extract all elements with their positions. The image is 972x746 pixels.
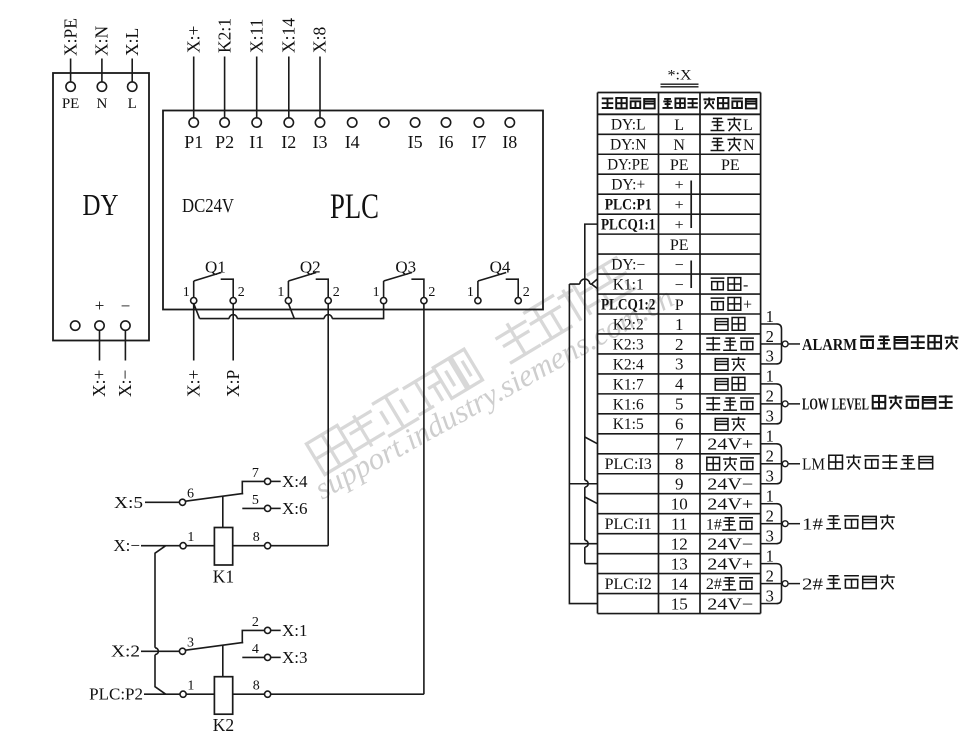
svg-text:LM: LM: [802, 455, 825, 474]
external common: [706, 337, 754, 351]
wire K1 pin8 to Q2-2: [271, 545, 329, 547]
svg-text:1: 1: [766, 546, 774, 565]
svg-text:K2:4: K2:4: [613, 356, 644, 373]
svg-text:PLC:I3: PLC:I3: [605, 456, 652, 473]
external 1# cycle: [722, 518, 753, 530]
jumper bar - terminals: [690, 261, 692, 289]
title underline 1: [661, 83, 699, 85]
K1 coil terminal 1: [180, 543, 186, 549]
svg-text:24V+: 24V+: [707, 554, 753, 573]
relay coil K2: [214, 677, 232, 715]
K1 contact terminal 5: [265, 505, 271, 511]
V1 entry to row 7/24V+: [585, 437, 598, 444]
svg-text:3: 3: [187, 636, 194, 651]
external contact type: [715, 377, 745, 390]
svg-text:X:+: X:+: [183, 370, 203, 398]
svg-text:DY:−: DY:−: [611, 256, 645, 273]
svg-text:3: 3: [766, 407, 774, 426]
dash to X:1: [271, 629, 281, 631]
svg-text:2: 2: [523, 285, 530, 300]
wire to PLC terminal P2: [224, 57, 226, 118]
svg-text:4: 4: [675, 375, 684, 394]
svg-text:7: 7: [675, 435, 684, 454]
svg-text:X:14: X:14: [279, 18, 299, 53]
svg-text:1: 1: [187, 679, 194, 694]
svg-text:X:+: X:+: [89, 370, 109, 398]
wire to PLC terminal P1: [193, 57, 195, 118]
wire Q1-1 to X:+: [193, 304, 195, 361]
svg-text:K2: K2: [213, 715, 234, 735]
PLC terminal I1: [252, 118, 261, 127]
svg-text:X:+: X:+: [183, 26, 203, 54]
DY terminal -: [121, 321, 130, 330]
wire to PLC terminal I2: [288, 57, 290, 118]
svg-text:2#: 2#: [706, 576, 722, 593]
svg-text:1#: 1#: [706, 516, 722, 533]
svg-text:3: 3: [766, 467, 774, 486]
PLC terminal I7: [474, 118, 483, 127]
svg-text:3: 3: [766, 586, 774, 605]
svg-text:+: +: [743, 297, 752, 314]
wire bus V2 from K1:1(-): [569, 284, 597, 604]
K1 contact terminal 7: [265, 478, 271, 484]
svg-text:DY:L: DY:L: [611, 117, 646, 134]
PLC terminal spare: [380, 118, 389, 127]
svg-text:K1:1: K1:1: [613, 276, 644, 293]
switch Q1: [183, 258, 245, 304]
svg-text:12: 12: [671, 534, 688, 553]
svg-text:N: N: [673, 137, 685, 154]
svg-text:2: 2: [766, 387, 774, 406]
bus wire under PLC to Q3-1: [200, 304, 384, 319]
svg-text:I2: I2: [281, 132, 296, 152]
bus hop over X:P wire: [229, 315, 237, 319]
PLC terminal I2: [284, 118, 293, 127]
PLC terminal I4: [348, 118, 357, 127]
dash to X:3: [271, 656, 281, 658]
external contact type: [715, 417, 745, 431]
svg-text:−: −: [675, 257, 684, 274]
V2 entry to row 9/24V-: [569, 483, 597, 485]
svg-text:P1: P1: [184, 132, 203, 152]
svg-text:X:3: X:3: [282, 648, 308, 667]
svg-text:1: 1: [187, 530, 194, 545]
svg-text:PE: PE: [670, 237, 689, 254]
wire pin1 to coil: [186, 693, 214, 695]
wire Q2-2 down to K1 pin 8: [327, 304, 329, 546]
PLC terminal I5: [410, 118, 419, 127]
svg-text:1: 1: [277, 285, 284, 300]
V1 entry to row 10/24V+: [585, 497, 598, 504]
PLC terminal P1: [189, 118, 198, 127]
group LM low-oil-level sensor: [761, 427, 933, 486]
wire to DY terminal PE: [70, 59, 72, 83]
K1 contact 5 lead: [242, 507, 264, 509]
svg-text:X:N: X:N: [92, 26, 112, 57]
wire coil to pin 8: [233, 545, 265, 547]
svg-text:2: 2: [252, 615, 259, 630]
svg-text:L: L: [743, 117, 753, 134]
svg-text:PLC:I1: PLC:I1: [605, 516, 652, 533]
wire blade to K2 coil: [222, 645, 224, 677]
dash to X:4: [271, 480, 281, 482]
svg-text:L: L: [128, 96, 137, 112]
svg-text:N: N: [96, 96, 107, 112]
svg-text:24V−: 24V−: [707, 594, 753, 613]
V2 entry to row 12/24V-: [569, 543, 597, 545]
wire pin1 to coil: [186, 545, 214, 547]
svg-text:K1:5: K1:5: [613, 416, 644, 433]
svg-text:DY: DY: [83, 187, 119, 222]
K2 changeover blade: [186, 642, 244, 650]
external contact type: [715, 357, 745, 371]
svg-text:PLC:P2: PLC:P2: [89, 685, 143, 704]
svg-text:9: 9: [675, 475, 684, 494]
svg-text:DY:+: DY:+: [611, 177, 645, 194]
svg-text:6: 6: [187, 487, 194, 502]
wire PLC:P2 to K2 pin 1: [144, 693, 180, 695]
external 2# cycle: [722, 578, 753, 590]
svg-text:X:6: X:6: [282, 499, 308, 518]
svg-text:5: 5: [675, 395, 684, 414]
svg-text:−: −: [121, 297, 131, 316]
wire Q1-2 to X:P: [232, 304, 234, 361]
V2 hop over V1: [580, 279, 590, 284]
svg-text:K2:1: K2:1: [214, 18, 234, 53]
svg-text:6: 6: [675, 415, 684, 434]
external motor+: [711, 298, 741, 311]
svg-text:I1: I1: [249, 132, 264, 152]
svg-text:24V−: 24V−: [707, 534, 753, 553]
wire Q3-2 down to K2 pin 8: [423, 304, 425, 695]
external jinxian L: [711, 117, 742, 131]
K1 changeover blade: [186, 493, 244, 501]
K1 contact 7 lead: [242, 481, 264, 494]
svg-text:X:4: X:4: [282, 472, 308, 491]
svg-text:K1:6: K1:6: [613, 396, 644, 413]
wire Q2-1 to bus (diagonal): [288, 304, 294, 319]
svg-text:X:P: X:P: [223, 370, 243, 398]
wire K2 pin8 to Q3-2: [271, 693, 424, 695]
svg-text:+: +: [95, 296, 105, 315]
svg-text:I4: I4: [345, 132, 360, 152]
svg-text:PE: PE: [62, 96, 80, 112]
svg-text:PE: PE: [721, 157, 740, 174]
svg-text:1: 1: [373, 285, 380, 300]
V2 fork into K1:1 row: [592, 279, 598, 289]
svg-text:X:1: X:1: [282, 621, 308, 640]
svg-text:2: 2: [766, 566, 774, 585]
svg-text:X:8: X:8: [310, 27, 330, 54]
wire to PLC terminal I3: [319, 57, 321, 118]
svg-text:X:−: X:−: [115, 370, 135, 398]
wire to PLC terminal I1: [256, 57, 258, 118]
svg-text:P2: P2: [215, 132, 234, 152]
svg-text:PLC:P1: PLC:P1: [605, 197, 652, 214]
power supply DY box: [53, 73, 149, 341]
wire X:- branch down to PLC:P2: [155, 546, 166, 695]
svg-text:PE: PE: [670, 157, 689, 174]
svg-text:K2:2: K2:2: [613, 316, 644, 333]
K2 contact 2 lead: [242, 630, 264, 643]
wire DY- down: [124, 330, 126, 360]
svg-text:+: +: [675, 197, 684, 214]
svg-text:K1: K1: [213, 567, 234, 587]
svg-text:2: 2: [766, 506, 774, 525]
svg-text:1: 1: [766, 427, 774, 446]
svg-text:1: 1: [183, 285, 190, 300]
svg-text:8: 8: [675, 455, 684, 474]
wire Q1-1 to bus (diagonal): [194, 304, 200, 319]
svg-text:X:11: X:11: [246, 19, 266, 53]
DY terminal PE: [66, 82, 75, 91]
external contact type: [715, 318, 745, 331]
svg-text:2: 2: [238, 285, 245, 300]
svg-text:3: 3: [766, 347, 774, 366]
switch Q3: [373, 258, 436, 304]
PLC terminal I8: [505, 118, 514, 127]
V1 entry to row 13/24V+ (end): [585, 563, 598, 565]
svg-text:1: 1: [766, 487, 774, 506]
wire blade to K1 coil: [222, 496, 224, 528]
svg-text:PLCQ1:2: PLCQ1:2: [601, 296, 656, 313]
svg-text:DY:PE: DY:PE: [607, 157, 649, 174]
svg-text:3: 3: [675, 355, 684, 374]
K2 coil terminal 1: [180, 691, 186, 697]
header internal device: [602, 97, 655, 108]
svg-text:L: L: [674, 117, 684, 134]
PLC terminal I3: [315, 118, 324, 127]
svg-text:X:−: X:−: [113, 536, 140, 555]
K2 contact terminal 3: [179, 648, 185, 654]
wire X:- to K1 pin 1: [141, 545, 180, 547]
svg-text:I5: I5: [408, 132, 423, 152]
svg-text:2: 2: [428, 285, 435, 300]
DY bottom spare terminal: [71, 321, 80, 330]
external motor-: [711, 278, 741, 291]
title underline 2: [661, 86, 699, 88]
wire bus V1 from PLCQ1:1(+): [585, 224, 598, 563]
svg-text:−: −: [675, 277, 684, 294]
relay coil K1: [214, 528, 232, 566]
svg-text:8: 8: [253, 679, 260, 694]
svg-text:24V−: 24V−: [707, 475, 753, 494]
header terminal no: [662, 98, 697, 108]
svg-text:K2:3: K2:3: [613, 336, 644, 353]
svg-text:2: 2: [675, 335, 684, 354]
external low oil level: [707, 457, 754, 471]
switch Q2: [277, 258, 339, 304]
svg-text:1#: 1#: [802, 514, 824, 533]
group 2# circulation switch: [761, 546, 895, 605]
svg-text:+: +: [675, 217, 684, 234]
svg-text:3: 3: [766, 526, 774, 545]
svg-text:DC24V: DC24V: [182, 196, 234, 217]
PLC terminal P2: [220, 118, 229, 127]
svg-text:2: 2: [333, 285, 340, 300]
wire to DY terminal L: [131, 59, 133, 83]
wire to DY terminal N: [101, 59, 103, 83]
wire coil to pin 8: [233, 693, 265, 695]
bus hop over Q2-2 wire: [324, 315, 332, 319]
K1 coil terminal 8: [265, 543, 271, 549]
external common: [706, 397, 754, 411]
svg-text:2#: 2#: [802, 574, 824, 593]
svg-text:I7: I7: [471, 132, 486, 152]
svg-text:5: 5: [252, 493, 259, 508]
svg-text:7: 7: [252, 466, 259, 481]
svg-text:X:2: X:2: [111, 642, 140, 661]
PLC terminal I6: [441, 118, 450, 127]
svg-text:11: 11: [671, 514, 687, 533]
svg-text:PLC:I2: PLC:I2: [605, 576, 652, 593]
external jinxian N: [711, 137, 742, 151]
svg-text:PLCQ1:1: PLCQ1:1: [601, 217, 656, 234]
terminal table grid: [598, 93, 761, 614]
svg-text:1: 1: [467, 285, 474, 300]
group ALARM lubrication-failure alarm: [761, 307, 959, 366]
hop over X:2 wire: [155, 648, 158, 655]
svg-text:X:5: X:5: [114, 493, 143, 512]
svg-text:I6: I6: [439, 132, 454, 152]
group LOW LEVEL low-oil alarm: [761, 367, 953, 426]
wire X:5 to contact 6: [145, 501, 179, 503]
svg-text:I3: I3: [313, 132, 328, 152]
svg-text:24V+: 24V+: [707, 435, 753, 454]
jumper bar + terminals: [690, 181, 692, 229]
header external device: [703, 97, 756, 108]
K2 contact terminal 4: [265, 654, 271, 660]
svg-text:+: +: [675, 177, 684, 194]
svg-text:10: 10: [671, 495, 688, 514]
V1 hop over row12 wire: [585, 540, 588, 547]
DY terminal L: [128, 82, 137, 91]
DY terminal N: [97, 82, 106, 91]
svg-text:15: 15: [671, 594, 688, 613]
watermark: siemens forum, rotated light gray: [306, 257, 679, 506]
svg-text:13: 13: [671, 554, 688, 573]
svg-text:-: -: [743, 277, 748, 294]
K2 contact terminal 2: [265, 627, 271, 633]
svg-text:1: 1: [766, 367, 774, 386]
V1 hop over row9 wire: [585, 480, 588, 487]
svg-text:N: N: [743, 137, 755, 154]
svg-text:K1:7: K1:7: [613, 376, 644, 393]
svg-text:2: 2: [766, 447, 774, 466]
PLC box: [163, 111, 543, 310]
svg-text:4: 4: [252, 642, 259, 657]
svg-text:24V+: 24V+: [707, 495, 753, 514]
wire X:2 to contact 3: [141, 650, 179, 652]
svg-text:2: 2: [766, 327, 774, 346]
svg-text:LOW LEVEL: LOW LEVEL: [802, 395, 869, 414]
K2 contact 4 lead: [242, 656, 264, 658]
svg-text:ALARM: ALARM: [802, 335, 857, 354]
dash to X:6: [271, 507, 281, 509]
svg-text:P: P: [675, 297, 684, 314]
DY terminal +: [95, 321, 104, 330]
svg-text:DY:N: DY:N: [610, 137, 646, 154]
svg-text:X:PE: X:PE: [60, 18, 80, 56]
svg-text:14: 14: [671, 574, 689, 593]
K2 coil terminal 8: [265, 691, 271, 697]
switch Q4: [467, 258, 530, 304]
group 1# circulation switch: [761, 487, 895, 546]
wire DY+ down: [99, 330, 101, 360]
svg-text:1: 1: [766, 307, 774, 326]
svg-text:I8: I8: [502, 132, 517, 152]
svg-text:PLC: PLC: [330, 186, 379, 226]
K1 contact terminal 6: [179, 499, 185, 505]
svg-text:X:L: X:L: [122, 28, 142, 56]
svg-text:8: 8: [253, 530, 260, 545]
svg-text:*:X: *:X: [668, 68, 693, 84]
svg-text:1: 1: [675, 315, 684, 334]
